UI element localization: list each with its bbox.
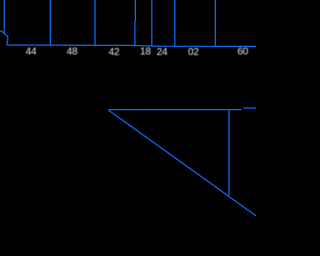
wire vertical pin 1 with jog [4, 0, 8, 45]
wire lower horizontal right segment [243, 107, 256, 109]
svg-text:18: 18 [140, 47, 151, 58]
wire bus horizontal [7, 45, 256, 46]
svg-text:48: 48 [67, 47, 78, 58]
wire vertical pin 6 [174, 0, 176, 46]
wire diagonal [108, 110, 256, 216]
wire vertical pin 3 [94, 0, 96, 45]
svg-text:02: 02 [188, 47, 199, 58]
svg-text:42: 42 [109, 47, 120, 58]
wire vertical pin 4 [134, 0, 137, 46]
wire vertical pin 2 [49, 0, 51, 45]
svg-text:60: 60 [237, 47, 248, 58]
wire lower horizontal left segment [108, 109, 241, 111]
wire vertical connector [228, 110, 230, 195]
svg-text:44: 44 [26, 47, 37, 58]
wire vertical pin 5 [151, 0, 153, 46]
wire vertical pin 7 [214, 0, 216, 46]
wire stub to left edge [0, 31, 4, 33]
svg-text:24: 24 [157, 47, 168, 58]
